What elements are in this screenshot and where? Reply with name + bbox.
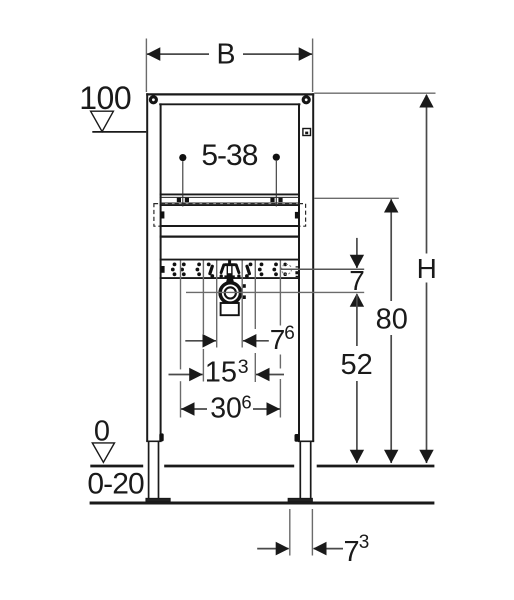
foot plate left — [146, 498, 170, 501]
level mark 0 — [92, 415, 114, 462]
svg-text:7: 7 — [344, 536, 360, 568]
svg-text:5-38: 5-38 — [201, 139, 257, 172]
screw hole left — [149, 95, 158, 104]
svg-text:15: 15 — [205, 356, 237, 388]
svg-text:100: 100 — [79, 80, 131, 116]
left leg — [149, 441, 159, 498]
dim 80 leader — [314, 197, 399, 199]
leg joint right — [298, 440, 314, 442]
tap position dot right — [273, 154, 280, 207]
drain leader — [186, 291, 364, 293]
supply leader — [280, 268, 364, 270]
dim 306 — [181, 392, 280, 425]
svg-text:80: 80 — [376, 303, 408, 335]
dim 153 extension lines — [203, 261, 255, 383]
dim B — [147, 39, 312, 71]
rail slot right — [245, 263, 252, 278]
drain neck — [226, 278, 234, 284]
svg-text:3: 3 — [359, 532, 370, 553]
tap rail lines — [160, 194, 300, 205]
leg clip right — [295, 434, 300, 442]
drain socket box — [221, 303, 239, 315]
dim 7 (supply to drain) — [349, 238, 365, 307]
dim B extension lines — [146, 39, 312, 93]
drain clamp ears — [243, 284, 246, 299]
svg-text:7: 7 — [349, 265, 365, 296]
svg-text:3: 3 — [238, 356, 249, 378]
dim 153 — [169, 356, 285, 388]
rail hole dots — [171, 263, 287, 277]
svg-text:0-20: 0-20 — [87, 468, 144, 501]
screw hole right — [302, 95, 311, 104]
rail slot left — [207, 263, 214, 278]
floor line — [90, 502, 435, 505]
leg joint left — [146, 440, 161, 442]
svg-text:6: 6 — [284, 323, 295, 344]
svg-text:52: 52 — [340, 349, 372, 381]
dim 73 extension lines — [290, 509, 313, 556]
dim 76 extension lines — [217, 261, 243, 348]
frame top bar — [146, 94, 314, 104]
right leg — [300, 441, 310, 498]
outlet bend symbol — [220, 260, 241, 278]
svg-text:30: 30 — [210, 393, 242, 425]
dim 73 — [257, 532, 369, 568]
perforated rail — [160, 260, 300, 279]
dim 52 — [340, 294, 372, 463]
svg-text:H: H — [417, 253, 437, 284]
crossbar bolt left — [160, 211, 164, 218]
dim H — [417, 94, 437, 463]
dim H leader — [314, 92, 435, 94]
foot plate right — [288, 498, 312, 501]
clip on right rail — [303, 129, 311, 136]
crossbar dashed outline — [154, 204, 306, 227]
svg-text:B: B — [216, 39, 235, 71]
tap clamps — [177, 198, 283, 202]
svg-text:6: 6 — [241, 392, 251, 413]
leg clip left — [159, 433, 163, 441]
zero datum line — [90, 465, 434, 468]
crossbar bolt right — [295, 212, 299, 219]
dim 80 — [376, 199, 408, 463]
supply hole dashed circle — [282, 264, 292, 274]
level mark 100 — [79, 80, 146, 132]
frame right rail — [299, 93, 313, 441]
drain pipe — [220, 283, 240, 303]
svg-text:7: 7 — [270, 324, 286, 355]
dim 306 extension lines — [181, 261, 281, 418]
lower chord line — [160, 235, 300, 237]
crossbar bottom line — [160, 225, 300, 227]
frame left rail — [147, 93, 160, 441]
dim 76 — [185, 323, 294, 355]
tap position dot left — [179, 154, 186, 207]
